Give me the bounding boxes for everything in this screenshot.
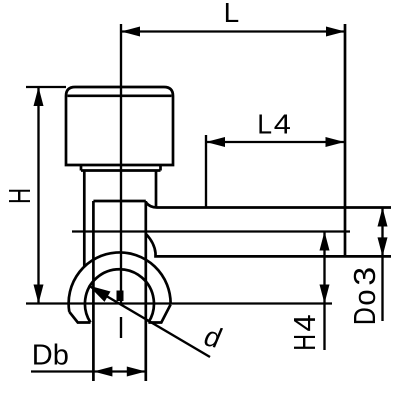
clamp outer arc: [69, 252, 171, 311]
svg-text:H: H: [287, 334, 322, 351]
horizontal center line / H and H4 extension: [26, 302, 332, 304]
clamp inner arc: [85, 269, 154, 322]
svg-text:o: o: [348, 289, 382, 305]
dimension H top extension: [26, 86, 66, 88]
arrow leader d: [89, 286, 111, 302]
svg-text:D: D: [347, 307, 381, 325]
dimension Do3 line: [381, 208, 383, 322]
hub left side / Db extension: [92, 201, 95, 381]
arrow Do3 up: [378, 208, 388, 227]
svg-text:L: L: [257, 108, 272, 140]
arrow Db right: [127, 367, 146, 377]
svg-text:L: L: [224, 0, 240, 28]
svg-text:d: d: [202, 320, 225, 354]
dimension H line: [37, 87, 39, 304]
arm axis line: [72, 230, 350, 232]
dimension Db line: [31, 370, 146, 372]
svg-text:Db: Db: [32, 340, 69, 372]
arrow H down: [34, 285, 44, 304]
arm top edge with fillet: [146, 203, 391, 208]
clamp left foot: [69, 312, 90, 323]
leader d line: [89, 286, 211, 358]
arrow L left: [121, 27, 140, 37]
svg-text:H: H: [2, 188, 36, 204]
arrow H up: [34, 87, 44, 106]
arrow H4 down: [320, 285, 330, 304]
svg-text:4: 4: [287, 314, 322, 331]
dimension L4 left extension: [205, 135, 207, 208]
hub right side / Db extension: [144, 201, 147, 381]
svg-text:4: 4: [274, 109, 291, 140]
arrow Db left: [93, 367, 112, 377]
collar under knob: [81, 165, 161, 171]
neck left side: [83, 171, 86, 267]
dimension L line: [121, 30, 345, 32]
center mark blob: [117, 291, 124, 302]
arrow Do3 down: [378, 237, 388, 256]
dimension H4 line: [323, 232, 325, 351]
knob K1 outline: [66, 87, 173, 165]
clamp right foot: [148, 305, 170, 323]
arrow L4 left: [206, 137, 225, 147]
dimension L4 line: [206, 141, 345, 143]
arrow L4 right: [326, 137, 345, 147]
arm bottom edge with fillet: [146, 234, 391, 256]
neck right side: [155, 171, 158, 207]
hub top edge: [93, 200, 145, 203]
knob K1 top face line: [68, 94, 172, 97]
arm end: [344, 24, 347, 256]
svg-text:3: 3: [347, 267, 381, 286]
arrow L right: [326, 27, 345, 37]
arrow H4 up: [320, 232, 330, 251]
vertical center line: [120, 24, 122, 338]
